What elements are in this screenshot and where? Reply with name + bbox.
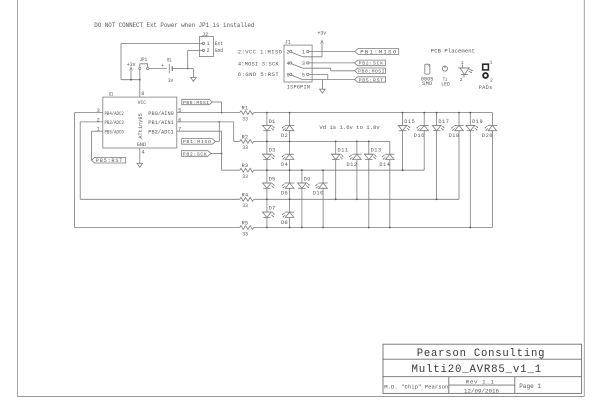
svg-text:3: 3 [97, 108, 100, 114]
svg-text:3: 3 [302, 61, 305, 67]
svg-text:B1: B1 [167, 57, 171, 63]
svg-text:PB5/ADC0: PB5/ADC0 [105, 129, 124, 135]
svg-text:Page 1: Page 1 [519, 383, 541, 390]
svg-text:ISP6PIN: ISP6PIN [287, 84, 310, 90]
svg-text:2: 2 [490, 78, 493, 84]
svg-text:7: 7 [178, 127, 181, 133]
svg-text:Gnd: Gnd [215, 48, 223, 54]
svg-text:D16: D16 [414, 133, 425, 139]
svg-text:Vd is 1.6v to 1.8v: Vd is 1.6v to 1.8v [319, 124, 380, 131]
svg-text:D19: D19 [472, 119, 483, 125]
svg-text:D8: D8 [281, 220, 288, 226]
svg-text:33: 33 [242, 145, 248, 151]
svg-text:Multi20_AVR85_v1_1: Multi20_AVR85_v1_1 [412, 364, 542, 376]
svg-text:JP1: JP1 [140, 57, 148, 63]
svg-text:D10: D10 [313, 191, 324, 197]
svg-text:D18: D18 [449, 133, 460, 139]
svg-text:ATtiny85: ATtiny85 [138, 113, 144, 139]
svg-text:1: 1 [490, 60, 493, 66]
svg-text:R2: R2 [242, 134, 249, 140]
svg-text:D12: D12 [347, 162, 358, 168]
svg-text:33: 33 [242, 116, 248, 122]
svg-text:M.D. "Chip" Pearson: M.D. "Chip" Pearson [384, 383, 448, 390]
svg-text:R3: R3 [242, 163, 249, 169]
svg-text:Pearson Consulting: Pearson Consulting [417, 348, 545, 360]
svg-text:R5: R5 [242, 221, 249, 227]
svg-text:J2: J2 [202, 32, 208, 38]
svg-text:2: 2 [97, 117, 100, 123]
svg-text:D14: D14 [379, 162, 390, 168]
svg-text:D3: D3 [269, 148, 276, 154]
svg-text:12/09/2016: 12/09/2016 [464, 387, 500, 394]
svg-text:2: 2 [460, 77, 463, 83]
svg-text:33: 33 [242, 203, 248, 209]
svg-text:6:GND 5:RST: 6:GND 5:RST [238, 72, 279, 78]
svg-text:+: + [161, 63, 164, 69]
svg-text:PCB Placement: PCB Placement [431, 47, 475, 54]
svg-text:33: 33 [242, 231, 248, 237]
svg-text:2: 2 [207, 48, 210, 54]
svg-text:D1: D1 [269, 119, 276, 125]
svg-text:4: 4 [286, 61, 289, 67]
svg-text:5: 5 [178, 108, 181, 114]
svg-text:U1: U1 [109, 91, 114, 97]
svg-text:PB3/ADC3: PB3/ADC3 [105, 120, 124, 126]
svg-text:D17: D17 [438, 119, 449, 125]
svg-text:4:MOSI 3:SCK: 4:MOSI 3:SCK [238, 61, 279, 67]
svg-text:D5: D5 [269, 177, 276, 183]
svg-text:D6: D6 [281, 191, 288, 197]
svg-text:5: 5 [302, 72, 305, 78]
svg-text:6: 6 [178, 117, 181, 123]
svg-text:3v: 3v [168, 78, 173, 84]
svg-text:4: 4 [142, 150, 145, 156]
svg-text:J1: J1 [285, 39, 291, 45]
svg-text:Rev 1.1: Rev 1.1 [466, 379, 495, 386]
svg-text:R1: R1 [242, 106, 249, 112]
svg-text:SMD: SMD [422, 81, 432, 87]
svg-text:PB4/ADC2: PB4/ADC2 [105, 111, 124, 117]
svg-text:1: 1 [302, 50, 305, 56]
svg-text:1: 1 [207, 41, 210, 47]
svg-text:D2: D2 [281, 133, 288, 139]
svg-text:D15: D15 [404, 119, 415, 125]
svg-text:D4: D4 [281, 162, 288, 168]
svg-text:R4: R4 [242, 192, 249, 198]
svg-text:Ext: Ext [215, 41, 223, 47]
svg-text:D9: D9 [304, 177, 311, 183]
svg-text:+3v: +3v [318, 30, 327, 36]
svg-text:33: 33 [242, 174, 248, 180]
svg-text:2: 2 [286, 50, 289, 56]
svg-text:D20: D20 [482, 133, 493, 139]
svg-text:D11: D11 [338, 148, 349, 154]
svg-text:D13: D13 [371, 148, 382, 154]
svg-text:PADs: PADs [479, 85, 492, 91]
svg-text:PB0/AIN0: PB0/AIN0 [148, 111, 174, 117]
svg-text:GND: GND [137, 142, 146, 148]
svg-text:1: 1 [97, 127, 100, 133]
svg-text:D7: D7 [269, 206, 276, 212]
svg-text:6: 6 [286, 72, 289, 78]
svg-text:VCC: VCC [138, 100, 146, 106]
svg-text:DO NOT CONNECT Ext Power when: DO NOT CONNECT Ext Power when JP1 is ins… [94, 22, 254, 29]
svg-text:2:VCC 1:MISO: 2:VCC 1:MISO [238, 50, 282, 56]
svg-text:PB2/ADC1: PB2/ADC1 [148, 129, 174, 135]
svg-text:PB1/AIN1: PB1/AIN1 [148, 120, 174, 126]
svg-text:8: 8 [141, 91, 144, 97]
svg-text:LED: LED [441, 82, 450, 88]
